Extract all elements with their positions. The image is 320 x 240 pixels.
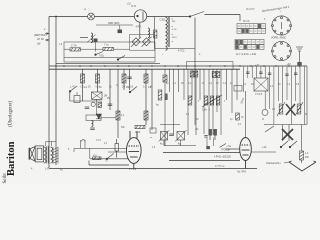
- core line 1: [46, 146, 48, 164]
- svg-text:2M: 2M: [126, 87, 129, 89]
- svg-text:C 12: C 12: [96, 140, 102, 142]
- junction x91: [90, 65, 92, 67]
- svg-text:≠G: ≠G: [195, 128, 198, 131]
- coil small: [148, 28, 150, 38]
- wire: [299, 64, 301, 67]
- junction x240: [239, 65, 241, 67]
- svg-text:70Ω: 70Ω: [99, 54, 104, 57]
- wire y141: [46, 141, 56, 143]
- wire: [64, 48, 70, 50]
- wire trafo up1: [45, 142, 47, 147]
- capacitor C13: [204, 136, 208, 138]
- capacitor dark blob 2: [94, 39, 98, 43]
- wire col x217: [216, 69, 218, 112]
- transformer block: [254, 78, 268, 91]
- svg-text:7 xx: 7 xx: [104, 43, 109, 47]
- svg-text:L? 1,8: L? 1,8: [129, 167, 137, 171]
- trim arrow: [87, 35, 96, 43]
- coil core 2: [169, 17, 171, 47]
- wire col x226.5: [226, 69, 228, 100]
- variable coil T2b: [177, 132, 185, 141]
- wire y145: [164, 145, 196, 147]
- wire rcol x300: [299, 66, 301, 104]
- wire col x213: [212, 69, 214, 135]
- wire col x165: [164, 69, 166, 146]
- resistor R15: [216, 72, 220, 78]
- svg-text:⊗: ⊗: [84, 8, 86, 11]
- svg-text:2M: 2M: [122, 87, 125, 89]
- wire osc box bottom: [155, 47, 195, 49]
- junction x178: [177, 65, 179, 67]
- svg-text:LP 30: LP 30: [37, 37, 44, 41]
- wire y124 left: [160, 124, 180, 126]
- wire v80: [79, 140, 81, 148]
- wire col x110: [109, 69, 111, 110]
- wire inside enclosure: [64, 57, 155, 59]
- svg-text:Bariton: Bariton: [6, 141, 17, 176]
- wire: [76, 92, 78, 96]
- wire y124: [264, 124, 307, 126]
- switch S4: [69, 86, 77, 92]
- resistor R10: [135, 125, 145, 128]
- wire top rail left: [49, 16, 88, 18]
- wire: [288, 125, 290, 142]
- dark X component 2: [282, 129, 293, 140]
- resistor R5: [96, 74, 100, 83]
- wire col x188: [187, 69, 189, 135]
- speaker: [29, 146, 44, 162]
- junction x251: [250, 65, 252, 67]
- wire: [116, 151, 118, 158]
- wire from tube: [251, 151, 276, 153]
- resistor R16: [163, 75, 167, 82]
- svg-text:C-5: C-5: [131, 4, 136, 8]
- svg-text:30 41 6°: 30 41 6°: [246, 9, 255, 11]
- gang enclosure: [130, 35, 155, 51]
- antenna coil L1: [91, 33, 93, 43]
- tube V3 AL4: [240, 138, 252, 169]
- mains switch: [280, 141, 288, 148]
- wire detector out: [101, 117, 116, 119]
- svg-text:30 4 6: 30 4 6: [243, 21, 250, 23]
- wire tube3 top: [245, 91, 247, 138]
- trimmer circle: [91, 102, 95, 106]
- wire col x209: [208, 69, 210, 129]
- svg-text:W13: W13: [172, 37, 177, 39]
- wire col x118: [117, 69, 119, 138]
- svg-text:C100: C100: [225, 156, 231, 159]
- svg-text:4-78: 4-78: [172, 29, 177, 31]
- wire V x195: [194, 18, 196, 70]
- wire top rail right: [147, 16, 190, 18]
- wire: [116, 139, 118, 144]
- dark X component: [286, 104, 295, 115]
- motor circle: [262, 109, 268, 115]
- wire col x124: [123, 69, 125, 90]
- switch S5: [129, 87, 137, 93]
- capacitor C10: [108, 104, 113, 106]
- wire rcol x252.2: [251, 66, 253, 78]
- wire rcol x291.3: [290, 66, 292, 124]
- wire sw2: [282, 125, 284, 142]
- wire col x237: [236, 69, 238, 100]
- wire col x178.6: [178, 69, 180, 92]
- wire col x152: [151, 69, 153, 130]
- wire y101: [70, 100, 102, 102]
- resistor R7: [122, 74, 126, 83]
- wire y152: [108, 151, 127, 153]
- wire col x195: [194, 69, 196, 125]
- transformer hatch: [53, 147, 58, 164]
- svg-text:C-5Ω: C-5Ω: [160, 20, 166, 22]
- wire col x82: [82, 69, 84, 101]
- wire rcol x265.2: [264, 66, 266, 78]
- svg-text:L-5: L-5: [45, 167, 49, 171]
- wire: [264, 91, 266, 109]
- wire y165: [89, 164, 129, 166]
- svg-text:4/80 (3W): 4/80 (3W): [108, 21, 120, 25]
- wire trafo up2: [50, 142, 52, 147]
- wire y152: [163, 152, 240, 154]
- svg-text:1,5k · 2: 1,5k · 2: [202, 109, 211, 112]
- detector box: [86, 115, 101, 121]
- wire col x173.5: [173, 69, 175, 135]
- wire rcol x247.8: [247, 66, 249, 78]
- wire y160b: [169, 160, 240, 162]
- wire y14.5: [205, 14, 241, 16]
- junction x56: [55, 65, 57, 67]
- svg-text:VÖRD: AN3C: VÖRD: AN3C: [271, 36, 286, 39]
- wire left bus V1: [48, 17, 50, 169]
- wire: [81, 48, 104, 50]
- junction x165: [164, 65, 166, 67]
- adjust arrow: [159, 130, 170, 142]
- terminal strip row2: [237, 29, 266, 34]
- junction rail x56: [55, 16, 57, 18]
- coil small 2: [92, 121, 94, 127]
- wire rcol x269.6: [269, 66, 271, 109]
- terminal strip row3: [235, 40, 264, 45]
- wire: [212, 138, 214, 147]
- junction x140: [139, 65, 141, 67]
- wire: [80, 37, 88, 39]
- wire rcol x304.3: [303, 66, 305, 124]
- tuning indicator circle: [134, 10, 146, 22]
- wire rcol x260.9: [260, 66, 262, 78]
- potentiometer cluster: [204, 96, 207, 105]
- wire rcol x282.6: [282, 66, 284, 103]
- wire to tube: [225, 148, 240, 150]
- pilot lamp: [88, 13, 95, 20]
- wire h y25: [96, 24, 133, 26]
- variable coil T2a: [161, 132, 168, 141]
- tube socket AM2 top: [272, 16, 292, 35]
- resistor R18: [188, 96, 192, 105]
- junction x105: [104, 65, 106, 67]
- svg-text:C 74: C 74: [71, 43, 77, 47]
- svg-text:+10: +10: [262, 146, 267, 149]
- wire: [119, 25, 121, 30]
- junction x210: [209, 65, 211, 67]
- svg-text:(Überlagerer): (Überlagerer): [8, 101, 14, 127]
- variable capacitor C1a: [131, 37, 141, 47]
- junction x225: [224, 65, 226, 67]
- wire col x184: [183, 69, 185, 100]
- wire: [301, 160, 303, 163]
- junction x276: [275, 65, 277, 67]
- wire col x169.3: [168, 69, 170, 92]
- wire left bus V2: [55, 17, 57, 166]
- wire osc box left: [154, 17, 156, 49]
- svg-text:~7xx: ~7xx: [226, 145, 232, 148]
- junction x299.5: [299, 65, 301, 67]
- bus B+ y66: [49, 65, 307, 67]
- wire rcol x243.5: [243, 66, 245, 92]
- wire right edge: [306, 66, 308, 125]
- svg-text:4Ω: 4Ω: [60, 170, 63, 172]
- wire rcol x295.7: [295, 66, 297, 101]
- wire col x204: [203, 69, 205, 134]
- wire col x192: [191, 69, 193, 100]
- svg-text:A = 4,3 Ω + 1Ω: A = 4,3 Ω + 1Ω: [236, 52, 257, 56]
- wire to strip: [239, 15, 241, 22]
- diode D1: [96, 114, 101, 119]
- adjust arrow 2: [175, 130, 187, 142]
- wire y148: [74, 147, 127, 149]
- svg-text:xNetzanschl,x: xNetzanschl,x: [266, 162, 282, 165]
- block x234: [234, 86, 242, 92]
- wire y63: [56, 62, 160, 64]
- enclosure band switch: [64, 42, 155, 62]
- small box x74: [74, 96, 80, 103]
- wire col x146: [145, 69, 147, 125]
- wire: [163, 140, 165, 146]
- wire stub: [73, 148, 75, 152]
- wire col x200: [199, 69, 201, 100]
- junction x289: [288, 65, 290, 67]
- tube V2: [127, 131, 142, 169]
- capacitor C mid: [169, 134, 174, 136]
- switch S1: [189, 12, 204, 18]
- junction x118: [117, 65, 119, 67]
- resistor R mains: [300, 151, 304, 160]
- wire rcol x278.3: [277, 66, 279, 101]
- resistor R9: [144, 111, 148, 120]
- capacitor C8b: [85, 107, 90, 109]
- resistor osc: [154, 30, 157, 38]
- wire: [180, 140, 182, 146]
- junction x80: [79, 65, 81, 67]
- svg-text:·: ·: [279, 137, 280, 141]
- wire: [206, 138, 208, 146]
- wire rcol x256.5: [256, 66, 258, 78]
- capacitor dark C14: [206, 146, 210, 149]
- wire rcol x273.9: [273, 66, 275, 124]
- resistor R14: [212, 72, 216, 78]
- resistor R17: [158, 90, 162, 100]
- resistor R1: [70, 48, 81, 51]
- coil core: [167, 17, 169, 47]
- wire: [301, 125, 303, 152]
- wire col x232: [231, 69, 233, 113]
- junction x195: [194, 65, 196, 67]
- resistor R12: [190, 71, 194, 77]
- right trimmer: [296, 47, 303, 62]
- switch S2: [95, 52, 103, 56]
- svg-text:◌: ◌: [88, 8, 90, 12]
- resistor R13: [194, 71, 198, 77]
- output transformer: [44, 147, 46, 163]
- svg-text:4 PB: 4 PB: [136, 26, 142, 29]
- electrolytic C12: [115, 144, 119, 152]
- wire: [95, 42, 97, 52]
- wire y168 long: [49, 168, 257, 170]
- core line 2: [47, 146, 49, 164]
- coil bump: [82, 140, 86, 142]
- wire y47: [114, 48, 130, 50]
- terminal strip row1: [237, 24, 266, 29]
- wire v85: [84, 140, 86, 148]
- svg-text:C-10: C-10: [135, 131, 141, 134]
- resistor R19: [236, 113, 240, 120]
- wire col x97: [97, 69, 99, 92]
- svg-text:C 7°C xx: C 7°C xx: [215, 165, 225, 168]
- resistor R4: [98, 103, 102, 108]
- capacitor C11: [127, 77, 132, 79]
- wire top rail mid: [95, 16, 135, 18]
- wire y61.5: [187, 61, 234, 63]
- variable capacitor C1b: [142, 37, 152, 47]
- wire: [69, 92, 71, 102]
- junction x264: [263, 65, 265, 67]
- svg-text:M: M: [262, 119, 264, 121]
- pot arrow: [202, 95, 222, 107]
- resistor R11: [93, 157, 101, 160]
- junction x64: [63, 65, 65, 67]
- svg-text:AL 4?A: AL 4?A: [237, 170, 246, 174]
- resistor R8: [144, 74, 148, 83]
- tube socket bottom: [272, 41, 292, 60]
- resistor R3: [81, 74, 85, 83]
- resistor R2: [103, 47, 114, 50]
- svg-text:4-7Ω1: 4-7Ω1: [178, 49, 185, 52]
- terminal arrows: [45, 33, 48, 42]
- potentiometers right: [279, 104, 283, 114]
- chassis ground: [289, 161, 316, 171]
- terminal strip row4: [235, 45, 264, 50]
- resistor R6: [116, 111, 120, 120]
- wire col x196: [195, 69, 197, 135]
- wire from indicator: [139, 22, 141, 37]
- wire col x221: [220, 69, 222, 135]
- junction x129: [128, 65, 130, 67]
- wire can-detector: [96, 99, 98, 114]
- bus y69: [49, 68, 240, 70]
- wire v89: [89, 148, 91, 158]
- dark terminals: [209, 129, 212, 136]
- oscillator coils L2-L5: [166, 17, 168, 28]
- wire col x129: [129, 69, 131, 90]
- svg-text:7PC 13k: 7PC 13k: [221, 150, 231, 152]
- junction x152: [151, 65, 153, 67]
- switch S3: [117, 56, 125, 61]
- capacitor dark blob: [118, 30, 123, 34]
- wire: [186, 62, 188, 70]
- wire: [88, 161, 90, 166]
- wire y158: [90, 158, 128, 160]
- small blocks x150: [150, 128, 156, 133]
- arrows: [220, 144, 226, 148]
- capacitor C9: [90, 128, 95, 130]
- switch S6: [106, 154, 113, 160]
- wire rcol x287: [286, 66, 288, 100]
- arrow: [265, 126, 274, 132]
- wire: [232, 62, 234, 70]
- IF can T1: [92, 92, 103, 99]
